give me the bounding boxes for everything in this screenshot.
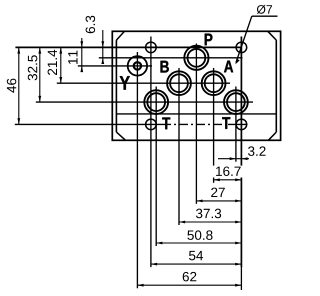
dimension 3.2 (218, 158, 249, 160)
mounting hole top-left (146, 42, 157, 53)
bottom bolt row centreline (right) (228, 123, 248, 125)
dimension 62 (137, 284, 241, 286)
mounting hole top-right (236, 42, 247, 53)
chamfer top-left (116, 31, 124, 40)
dimension 54 (151, 263, 242, 265)
Y port column line (136, 52, 138, 288)
bottom bolt row centreline (dash-dot middle) (162, 123, 228, 125)
chamfer bottom-left (116, 132, 125, 140)
Y port row extension line (78, 65, 152, 67)
mounting hole bottom-right (236, 119, 247, 130)
port A counterbore (202, 71, 226, 95)
hole note text Ø7 (257, 5, 272, 14)
P port column line (195, 44, 197, 204)
label P (205, 34, 213, 46)
port T1 bore (147, 93, 165, 111)
port Y bore (134, 62, 141, 69)
dimension 16.7 (214, 179, 242, 181)
hole note leader underline (252, 15, 278, 17)
chamfer bottom-right (268, 132, 276, 140)
face lower edge line (116, 113, 276, 115)
label B (161, 61, 169, 73)
A port column line (213, 68, 215, 183)
dimension 37.3 (179, 221, 241, 223)
dimension 11 (81, 38, 83, 72)
port T1 counterbore (144, 90, 168, 114)
label A (224, 61, 233, 73)
port A bore (205, 74, 223, 92)
label T right (222, 117, 230, 129)
hole note leader arrowhead (235, 59, 239, 65)
T port row extension line (36, 101, 253, 103)
T2 port column line (235, 87, 237, 162)
port B counterbore (167, 71, 191, 95)
T1 port column line (155, 87, 157, 247)
P port row extension line (99, 57, 243, 59)
label Y (120, 76, 130, 89)
B port column line (178, 68, 180, 225)
label T left (162, 118, 170, 130)
port T2 counterbore (224, 90, 248, 114)
dimension 46 (18, 47, 20, 124)
chamfer top-right (268, 31, 277, 40)
port B bore (170, 74, 188, 92)
plate inner left edge (115, 40, 117, 132)
mounting hole bottom-left (146, 119, 157, 130)
dimension 6.3 (102, 30, 104, 64)
bottom bolt row centreline (left) (15, 123, 162, 125)
dimension 27 (196, 200, 241, 202)
dimension 21.4 (60, 47, 62, 83)
datum row line (top bolt row centreline) (15, 46, 241, 48)
right datum column line (bold) (240, 37, 242, 268)
plate inner right edge (275, 40, 277, 132)
plate outer outline (112, 31, 280, 140)
dimension 50.8 (156, 242, 241, 244)
left bolt column line (150, 37, 152, 268)
dimension 32.5 (39, 47, 41, 102)
port P bore (188, 49, 206, 67)
hole note leader line (236, 16, 252, 62)
port Y counterbore (128, 56, 147, 75)
port T2 bore (227, 93, 245, 111)
A/B port row extension line (57, 82, 230, 84)
port P counterbore (184, 46, 208, 70)
